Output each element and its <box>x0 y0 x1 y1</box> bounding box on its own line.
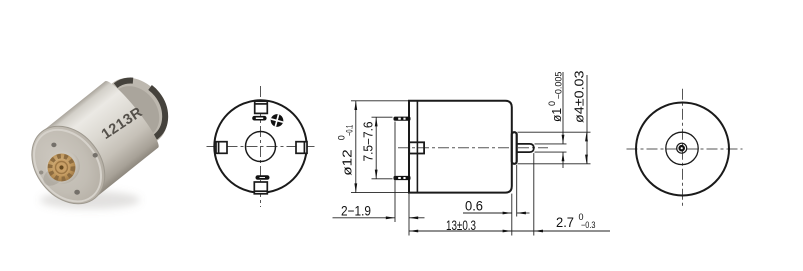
bottom tab <box>254 182 267 194</box>
shaft <box>517 144 534 152</box>
dia4 arrows <box>585 132 588 141</box>
rear outer circle <box>636 103 729 196</box>
arrowheads <box>354 101 588 233</box>
2.7 arrow <box>534 230 543 233</box>
dimension graphics (thin lines) <box>333 72 611 236</box>
svg-text:0.6: 0.6 <box>465 199 483 214</box>
0.6 dimension line left part <box>463 212 512 214</box>
body right ext line down <box>511 194 513 236</box>
13 arrows <box>409 230 418 233</box>
pin tip ext line down <box>394 122 396 223</box>
bottom slot <box>256 175 270 180</box>
0.6 dimension line right tail <box>517 212 530 214</box>
svg-text:ø12: ø12 <box>341 149 355 176</box>
side view centerline <box>398 147 548 149</box>
front plate line <box>416 101 418 193</box>
svg-text:2.7: 2.7 <box>556 215 574 230</box>
svg-text:ø4±0.03: ø4±0.03 <box>573 70 587 123</box>
back cap (black plastic) <box>90 65 180 158</box>
motor photo group <box>17 60 185 218</box>
motor body outline <box>409 101 512 193</box>
center washer/boss <box>39 144 86 191</box>
face screw holes <box>51 143 56 148</box>
body left ext line down <box>408 194 410 236</box>
svg-text:−0.005: −0.005 <box>554 72 564 100</box>
rear shaft dot <box>680 146 684 150</box>
ext lines body top/bottom for dia12 <box>351 100 408 102</box>
dia4 dimension line <box>586 75 588 164</box>
rear view centerlines <box>627 89 743 207</box>
rear middle circle <box>666 132 698 164</box>
collar (4mm boss) <box>512 132 517 164</box>
2-1.9 arrows <box>386 216 395 219</box>
dimension texts <box>336 70 595 233</box>
gear shadow <box>40 162 69 189</box>
soft shadow <box>40 191 140 209</box>
shaft dia ext lines right <box>535 143 567 145</box>
13 dimension line <box>409 230 512 232</box>
right tab <box>296 142 307 154</box>
face base <box>17 112 120 218</box>
dia1 dimension line <box>562 72 564 144</box>
cylinder body <box>42 81 158 198</box>
rear small circle <box>677 143 687 153</box>
pinion gear <box>48 154 76 182</box>
top tab <box>255 101 268 113</box>
svg-text:0: 0 <box>547 101 557 106</box>
svg-text:ø1: ø1 <box>550 108 564 122</box>
svg-text:−0.1: −0.1 <box>345 125 355 136</box>
2-1.9 dimension line right tail <box>409 217 425 219</box>
7.5-7.6 dimension line <box>375 117 377 179</box>
dia12 dimension line <box>355 101 357 193</box>
dia12 with tolerance (rotated) <box>336 125 354 176</box>
ext lines pins for 7.5-7.6 <box>372 116 393 118</box>
2.7 dimension line <box>512 230 610 232</box>
collar right ext line down <box>516 165 518 217</box>
front bearing boss <box>409 142 424 153</box>
shaft end ext line down <box>533 153 535 235</box>
screw head <box>269 113 284 128</box>
top slot (brush slot) <box>252 116 266 121</box>
7.5-7.6 (rotated) <box>362 121 376 161</box>
terminal pin bottom <box>394 176 411 180</box>
0.6 arrows <box>503 212 512 215</box>
svg-text:13±0.3: 13±0.3 <box>446 218 476 233</box>
dia12 arrows <box>354 101 357 110</box>
dia1 with tolerance (rotated) <box>547 72 564 122</box>
svg-text:−0.3: −0.3 <box>581 220 596 230</box>
svg-text:7.5−7.6: 7.5−7.6 <box>362 121 376 161</box>
svg-text:2−1.9: 2−1.9 <box>341 203 371 218</box>
front view centerlines <box>207 86 315 207</box>
terminal pin top <box>394 117 411 121</box>
front view bearing circle <box>246 132 276 162</box>
left tab <box>216 142 227 154</box>
dia1 arrows <box>562 135 565 144</box>
dia4 tolerance (rotated) <box>573 70 587 123</box>
body edge covering: front half of back ellipse region <box>100 77 164 152</box>
2-1.9 dimension line left part <box>333 217 396 219</box>
face rim highlight <box>20 117 115 215</box>
front view outer circle <box>214 100 306 192</box>
collar dia ext lines right <box>518 131 591 133</box>
7.5-7.6 arrows <box>375 117 378 126</box>
